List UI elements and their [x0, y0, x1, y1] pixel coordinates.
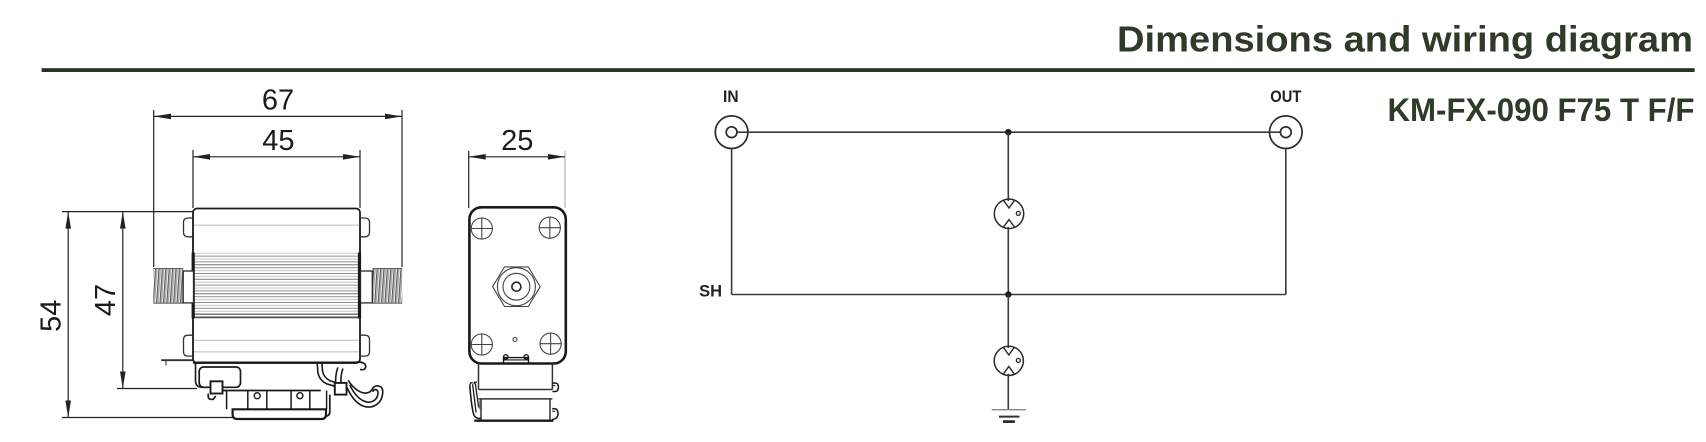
- title underline rule: [42, 68, 1695, 72]
- svg-text:OUT: OUT: [1270, 88, 1301, 106]
- dimension 47 label (rotated): [90, 284, 122, 316]
- dimension 67 label: [262, 84, 294, 116]
- side clip right hooks: [552, 383, 558, 420]
- side clip block: [474, 364, 553, 421]
- pilot hole: [513, 338, 517, 342]
- wire GDT1 to SH junction: [1007, 227, 1009, 295]
- ground symbol: [992, 410, 1026, 422]
- mounting tab bottom-left: [184, 335, 194, 356]
- gas discharge tube GDT1: [994, 199, 1023, 228]
- hex coupling nut: [493, 267, 541, 307]
- dimension 45 lines and arrows: [193, 150, 360, 208]
- wire SH junction to GDT2: [1007, 295, 1009, 349]
- wire GDT2 to ground: [1007, 374, 1009, 410]
- dimension 45 label: [262, 125, 294, 157]
- screw top-right: [539, 217, 560, 238]
- wire IN to OUT (top): [737, 131, 1280, 133]
- din rail bottom plate: [233, 409, 326, 419]
- label IN: [723, 88, 739, 106]
- left threaded connector: [153, 268, 193, 304]
- mounting tab top-right: [360, 218, 370, 237]
- dimension 67 lines and arrows: [154, 110, 402, 267]
- dimension 47 lines and arrows: [117, 212, 197, 389]
- svg-text:25: 25: [501, 125, 533, 157]
- label OUT: [1270, 88, 1301, 106]
- label SH: [699, 283, 722, 301]
- din rail seat bar: [223, 391, 321, 410]
- din clip right hook ribbon: [325, 380, 383, 416]
- body upper groove line: [194, 224, 359, 226]
- svg-text:Dimensions and wiring diagram: Dimensions and wiring diagram: [1117, 19, 1693, 60]
- model label KM-FX-090 F75 T F/F: [1388, 92, 1695, 128]
- wire OUT down to SH: [1285, 149, 1287, 295]
- svg-text:54: 54: [36, 300, 68, 332]
- dimension 54 label (rotated): [36, 300, 68, 332]
- left protruding pin: [161, 360, 193, 365]
- wire SH bus: [732, 294, 1286, 296]
- gas discharge tube GDT2: [994, 346, 1023, 375]
- din clip left latch square: [211, 381, 223, 393]
- din clip left arm (front): [196, 363, 241, 388]
- front bottom edge lip: [193, 362, 357, 364]
- svg-text:47: 47: [90, 284, 122, 316]
- OUT connector: [1270, 116, 1303, 149]
- wire IN down to SH: [731, 149, 733, 295]
- dimension 25 lines and arrows: [469, 151, 565, 208]
- title: Dimensions and wiring diagram: [1117, 19, 1693, 60]
- rail rivet left: [254, 393, 260, 399]
- side body outline: [469, 207, 565, 363]
- svg-text:SH: SH: [699, 283, 722, 301]
- din clip right latch square: [335, 383, 347, 395]
- mounting tab top-left: [184, 218, 194, 237]
- din clip left hook: [208, 394, 216, 400]
- svg-text:67: 67: [262, 84, 294, 116]
- body lower groove lines: [194, 340, 359, 352]
- din clip right spring strips: [317, 362, 366, 386]
- mounting tab bottom-right: [360, 335, 370, 356]
- junction top node: [1005, 129, 1011, 135]
- screw bottom-right: [540, 333, 561, 354]
- heatsink fins: [194, 253, 359, 317]
- dimension 25 label: [501, 125, 533, 157]
- dimension 54 lines and arrows: [62, 212, 233, 418]
- svg-text:45: 45: [262, 125, 294, 157]
- bottom notch: [504, 355, 529, 363]
- svg-text:KM-FX-090 F75 T F/F: KM-FX-090 F75 T F/F: [1388, 92, 1695, 128]
- wire top junction to GDT1: [1007, 132, 1009, 201]
- junction SH node: [1005, 291, 1011, 297]
- svg-text:IN: IN: [723, 88, 739, 106]
- IN connector: [715, 116, 748, 149]
- side clip left hooks: [470, 382, 482, 418]
- fin band side plates: [192, 253, 362, 319]
- device body (front): [193, 209, 360, 364]
- right threaded connector: [361, 268, 403, 304]
- screw top-left: [471, 218, 492, 239]
- screw bottom-left: [471, 334, 492, 355]
- rail rivet right: [297, 393, 303, 399]
